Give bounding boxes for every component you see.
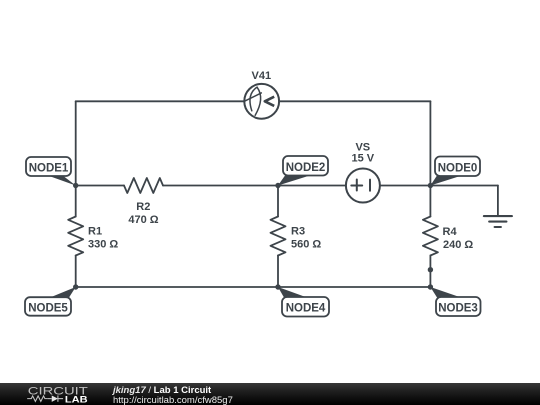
svg-text:LAB: LAB	[65, 394, 88, 404]
tail NODE3	[430, 287, 461, 298]
svg-text:240 Ω: 240 Ω	[443, 239, 473, 251]
svg-text:NODE3: NODE3	[438, 303, 478, 315]
node box NODE3	[436, 297, 481, 316]
junction dot NODE4	[275, 284, 280, 289]
footer line 2	[113, 395, 233, 405]
svg-text:560 Ω: 560 Ω	[291, 239, 321, 251]
wire top horizontal right of V41	[279, 100, 430, 102]
wire R3 to NODE4	[277, 256, 279, 288]
svg-text:R3: R3	[291, 226, 305, 238]
svg-text:NODE4: NODE4	[286, 303, 326, 315]
svg-text:15 V: 15 V	[351, 153, 374, 165]
footer bar	[0, 383, 540, 405]
wire top-left vertical	[75, 101, 77, 185]
node box NODE1	[26, 157, 71, 176]
junction dot NODE5	[73, 284, 78, 289]
resistor R2	[124, 178, 163, 193]
footer line 1	[113, 385, 211, 396]
ground	[484, 216, 512, 227]
svg-text:NODE2: NODE2	[286, 162, 326, 174]
wire R2 to VS	[163, 185, 346, 187]
tail NODE2	[278, 176, 309, 186]
node box NODE2	[283, 156, 328, 176]
svg-text:NODE5: NODE5	[28, 303, 68, 315]
svg-text:V41: V41	[252, 70, 272, 82]
node box NODE5	[25, 297, 71, 316]
tail NODE0	[430, 176, 461, 186]
wire bottom horizontal	[76, 286, 431, 288]
wire top-right vertical	[429, 101, 431, 185]
node box NODE0	[435, 157, 480, 177]
wire top horizontal left of V41	[76, 100, 245, 102]
CircuitLab logo	[24, 385, 94, 405]
wire R4 to NODE3	[429, 256, 431, 288]
wire NODE2 to R3	[277, 186, 279, 217]
resistor R1	[68, 217, 83, 256]
voltage source VS	[346, 169, 380, 203]
svg-text:NODE0: NODE0	[438, 163, 478, 175]
voltmeter V41	[244, 84, 279, 119]
tail NODE4	[278, 287, 307, 298]
svg-text:470 Ω: 470 Ω	[128, 214, 158, 226]
svg-text:R2: R2	[136, 201, 150, 213]
wire ground vertical	[497, 186, 499, 217]
junction dot NODE2	[275, 183, 280, 188]
resistor R3	[271, 217, 286, 256]
svg-text:R4: R4	[443, 226, 458, 238]
wire VS to ground corner	[380, 185, 498, 187]
tail NODE5	[50, 287, 76, 298]
junction dot above NODE3	[428, 267, 433, 272]
junction dot NODE1	[73, 183, 78, 188]
tail NODE1	[45, 175, 76, 186]
wire NODE1 to R1	[75, 186, 77, 217]
wire NODE1 to R2	[76, 185, 124, 187]
svg-text:NODE1: NODE1	[29, 163, 69, 175]
wire NODE0 to R4	[429, 186, 431, 217]
node box NODE4	[282, 297, 329, 317]
junction dot NODE3	[428, 284, 433, 289]
wire R1 to NODE5	[75, 256, 77, 288]
svg-text:R1: R1	[88, 226, 102, 238]
junction dot NODE0	[428, 183, 433, 188]
resistor R4	[423, 217, 438, 256]
svg-text:330 Ω: 330 Ω	[88, 239, 118, 251]
